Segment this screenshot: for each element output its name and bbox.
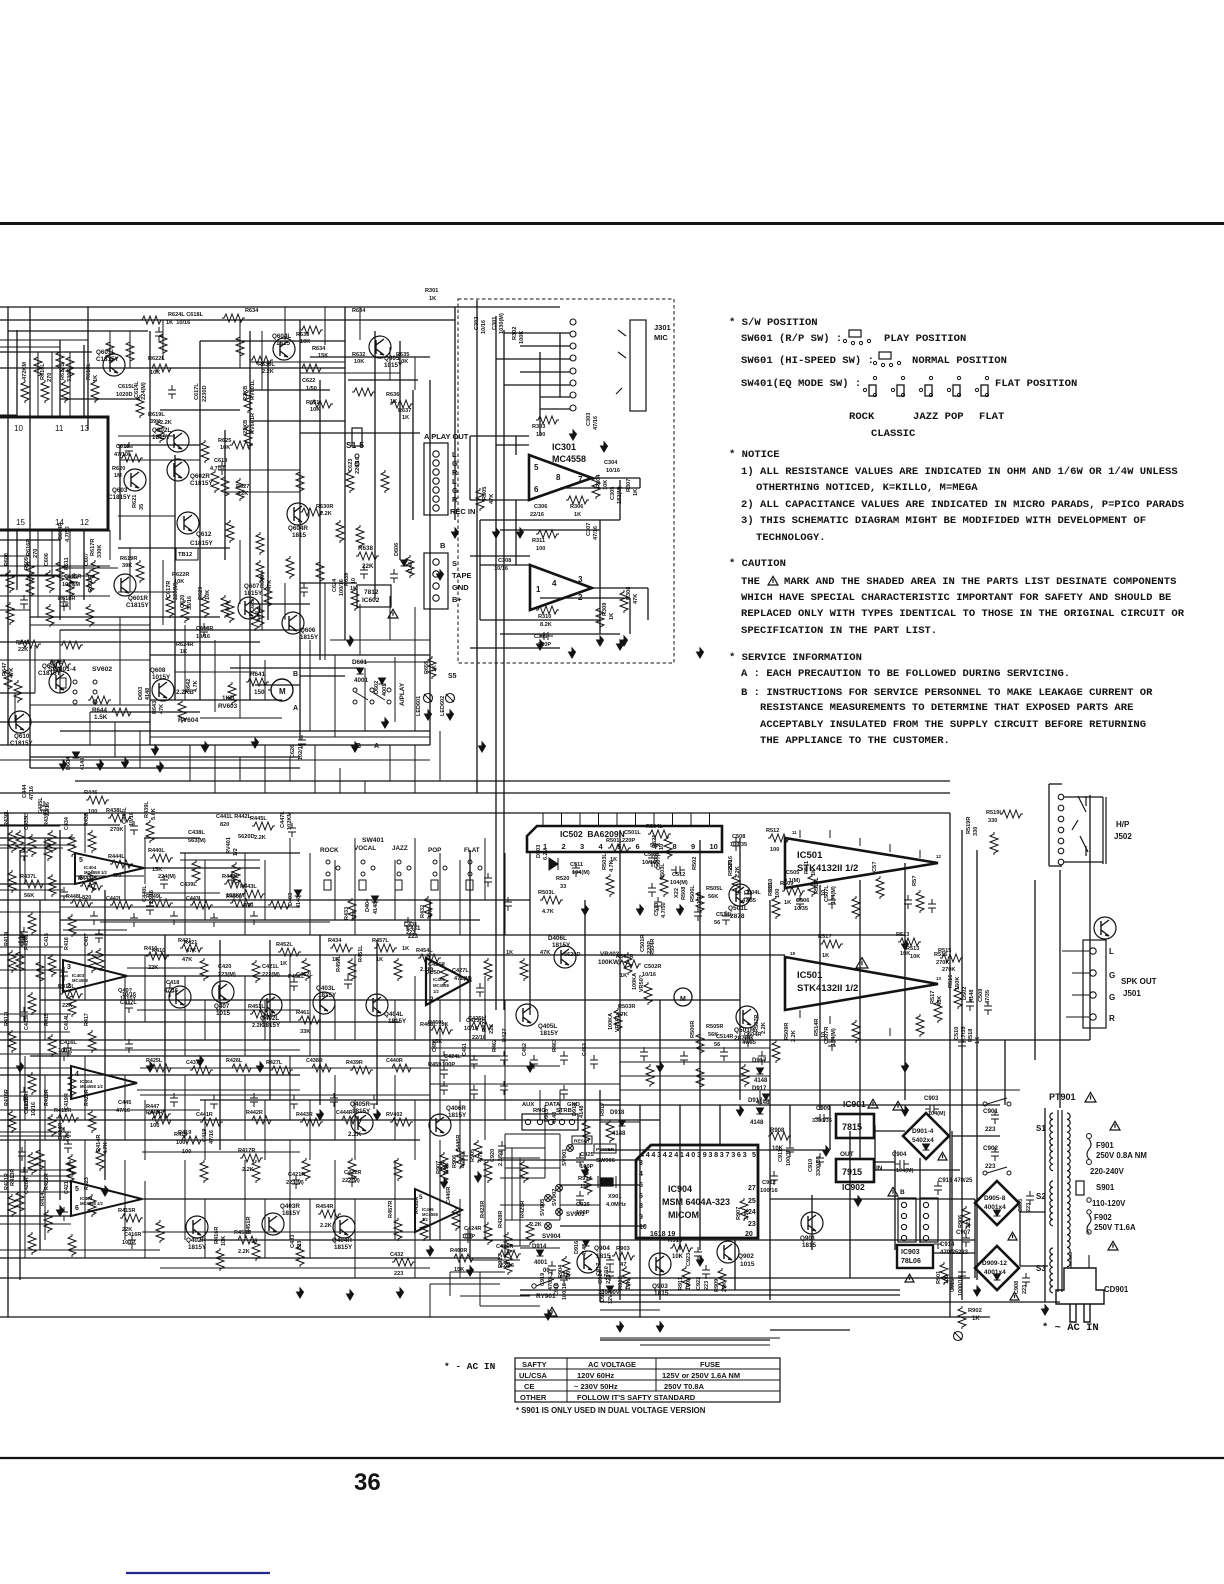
svg-text:6: 6 [639,1193,643,1200]
svg-text:4148: 4148 [754,1078,768,1084]
wire [184,1075,186,1140]
svg-text:REC IN: REC IN [450,507,475,516]
wire [484,1160,486,1240]
ground [582,905,589,915]
wire [144,867,260,869]
wire [0,367,345,369]
wire [0,1180,71,1182]
svg-text:100/35: 100/35 [730,842,747,848]
svg-text:10K: 10K [398,359,408,365]
capacitor C513 sym [654,897,662,911]
svg-text:R907: R907 [736,1207,742,1220]
svg-text:P452L: P452L [288,974,305,980]
svg-text:10/16: 10/16 [129,812,135,826]
wire [414,976,416,1040]
svg-text:Q501L: Q501L [728,905,748,912]
svg-text:* ~ AC IN: * ~ AC IN [1042,1322,1099,1334]
svg-text:56K: 56K [708,894,718,900]
wire [430,1083,620,1085]
svg-text:R414R: R414R [96,1135,102,1152]
ground [257,1062,264,1072]
svg-text:Q604R: Q604R [288,525,308,532]
svg-text:3: 3 [578,575,583,584]
resistor R432 [424,896,432,919]
svg-text:C509: C509 [978,989,984,1002]
resistor mid v22 [852,896,860,919]
svg-text:R636: R636 [386,392,399,398]
resistor R308 [620,590,628,613]
svg-text:R440L: R440L [148,848,165,854]
wire [739,838,741,1100]
capacitor top 0 [125,442,133,456]
resistor mid v35 [252,1160,260,1183]
bridge diode glyph 2 [994,1210,1001,1216]
svg-text:R620: R620 [112,466,125,472]
svg-text:A PLAY OUT: A PLAY OUT [424,432,469,441]
resistor top v17 [181,600,189,623]
wire [137,1009,300,1011]
svg-text:C440R: C440R [386,1058,403,1064]
resistor R501L 1K [608,844,631,852]
transistor Q612 [177,512,199,534]
wire [700,1239,975,1241]
sw symbol HI-SPEED [879,352,891,359]
svg-text:R415L: R415L [58,984,75,990]
wire [30,756,300,758]
svg-text:* SERVICE INFORMATION: * SERVICE INFORMATION [729,652,862,664]
resistor top v19 [221,595,229,618]
resistor top v7 [244,425,252,448]
svg-text:R901: R901 [936,1271,942,1284]
ground [517,528,524,538]
wire [560,487,640,489]
resistor mid v29 [852,1020,860,1043]
svg-text:OTHER: OTHER [520,1393,547,1402]
svg-text:C420: C420 [218,964,231,970]
capacitor mid 18 [732,837,740,851]
svg-text:47/16: 47/16 [29,786,35,800]
svg-text:330: 330 [973,827,979,836]
capacitor d2-4 [20,927,28,941]
svg-text:C438L: C438L [188,830,205,836]
wire [0,1175,71,1177]
resistor mid v4 [232,862,240,885]
capacitor C905 [1026,1191,1034,1205]
svg-text:1030(M): 1030(M) [499,313,505,334]
wire [414,838,416,935]
resistor x8 [126,340,134,363]
wire [520,1294,900,1296]
resistor d3v-0 [646,1064,654,1087]
svg-text:18: 18 [790,951,796,956]
wire [500,1245,530,1247]
wire [600,1309,660,1311]
capacitor top 2 [70,573,78,587]
wire [811,1195,813,1250]
svg-text:MC4558: MC4558 [433,983,449,988]
resistor d2-33 [8,1194,16,1217]
svg-text:4.7K: 4.7K [616,1012,628,1018]
warning by IC901 [868,1099,878,1108]
svg-text:C623: C623 [348,459,354,472]
svg-text:R629: R629 [198,587,204,600]
wire [0,641,260,643]
svg-text:C421: C421 [64,1181,70,1194]
wire [769,900,771,1300]
svg-text:10K: 10K [221,1236,227,1246]
svg-text:223: 223 [1026,1203,1032,1212]
wire [0,847,63,849]
svg-text:R425L: R425L [146,1058,163,1064]
wire [330,639,430,641]
capacitor mid 36 [966,997,974,1011]
svg-text:GND: GND [452,583,469,592]
svg-text:15K: 15K [318,353,328,359]
label R638 [356,552,379,560]
svg-text:R503R: R503R [618,1004,635,1010]
resistor top v12 [26,560,34,583]
capacitor C903 [925,1105,939,1113]
svg-text:MC4558: MC4558 [552,454,586,464]
wire [59,830,61,1200]
svg-text:R617R: R617R [90,539,96,556]
svg-text:THE: THE [741,576,760,588]
svg-text:150K: 150K [955,977,961,990]
wire [162,560,164,625]
svg-text:27K: 27K [722,1282,728,1292]
svg-text:6: 6 [636,842,640,851]
wire [559,1090,561,1114]
resistor d3-4 [310,1064,333,1072]
resistor R504L 56K [648,830,671,838]
svg-text:6: 6 [75,1205,79,1212]
wire [359,604,361,655]
wire [699,1090,701,1105]
wire [0,1139,420,1141]
svg-text:R519L: R519L [986,810,1003,816]
svg-text:R619R: R619R [120,556,137,562]
svg-text:S2: S2 [1036,1192,1046,1201]
wire [264,860,266,920]
svg-text:R452L: R452L [276,942,293,948]
svg-text:D905-8: D905-8 [984,1195,1006,1202]
svg-text:Q404L: Q404L [384,1011,403,1018]
svg-text:5.6K: 5.6K [151,808,157,820]
svg-text:1815Y: 1815Y [388,1018,407,1025]
resistor top v9 [221,475,229,498]
resistor d3-3 [270,1066,293,1074]
wire [127,967,200,969]
svg-text:C414R: C414R [58,1123,64,1140]
capacitor d2-11 [60,1207,68,1221]
wire [504,1056,506,1120]
svg-text:STRB: STRB [556,1108,572,1114]
svg-text:R436L: R436L [4,809,10,826]
wire [144,892,220,894]
capacitor mid 12 [476,983,484,997]
LED602 [446,694,455,703]
resistor R509 1K [782,887,805,895]
wire [118,515,175,517]
resistor mid v8 [200,958,208,981]
svg-text:104(M): 104(M) [896,1168,914,1174]
resistor top h14 [110,708,133,716]
svg-text:CE: CE [524,1382,534,1391]
wire [500,1177,545,1179]
svg-text:2.2K: 2.2K [320,1223,332,1229]
wire [874,1125,876,1170]
svg-text:472(M): 472(M) [454,976,472,982]
capacitor C911 [786,1143,794,1157]
resistor top h12 [390,400,413,408]
wire [164,935,166,1120]
svg-text:10K: 10K [672,1254,684,1260]
svg-text:9: 9 [691,842,695,851]
capacitor C907 [962,1233,970,1247]
wire [449,1272,451,1296]
wire [0,837,75,839]
svg-text:R508: R508 [681,887,687,900]
svg-text:R644: R644 [92,707,108,714]
wire [118,444,200,446]
svg-text:R460R: R460R [450,1248,467,1254]
wire [600,1339,770,1341]
svg-text:* S901 IS ONLY USED IN DUAL VO: * S901 IS ONLY USED IN DUAL VOLTAGE VERS… [516,1406,706,1415]
wire [0,721,150,723]
IC602 7812 regulator box [357,585,391,607]
resistor R907 [740,1198,748,1221]
svg-text:C421R: C421R [288,1172,305,1178]
wire [484,838,486,900]
svg-text:IC902: IC902 [842,1182,865,1192]
resistor mid v26 [934,1000,942,1023]
switch SW401 bank 3 [433,860,437,864]
resistor R303 [536,416,559,424]
wire [0,744,430,746]
svg-text:11: 11 [792,830,797,835]
svg-text:R903: R903 [616,1246,631,1252]
resistor x9 [159,332,167,355]
capacitor mid 7 [125,999,133,1013]
wire [239,540,241,604]
op-amp IC405b [415,1189,462,1232]
svg-text:7: 7 [578,475,583,484]
svg-text:4148: 4148 [552,1112,558,1124]
mic amp dashed box [458,299,674,663]
capacitor top 3 [200,623,208,637]
svg-text:56: 56 [714,920,720,926]
svg-text:100K: 100K [686,1277,692,1290]
svg-text:VOCAL: VOCAL [354,845,376,852]
svg-text:39K: 39K [122,563,132,569]
wire [230,667,360,669]
switch S1-5 sym [352,428,362,446]
svg-text:R511: R511 [804,861,810,874]
svg-text:33K: 33K [300,1029,310,1035]
wire [479,520,481,620]
svg-text:R417: R417 [84,1013,90,1026]
svg-text:IC501: IC501 [797,970,823,981]
svg-text:R438: R438 [84,813,90,826]
mains cord lines [1071,1252,1089,1268]
capacitor mid 31 [18,1147,26,1161]
svg-text:R645: R645 [50,660,63,666]
svg-text:B : INSTRUCTIONS FOR SERVICE P: B : INSTRUCTIONS FOR SERVICE PERSONNEL T… [741,687,1153,699]
svg-text:~ 230V 50Hz: ~ 230V 50Hz [574,1382,618,1391]
svg-text:47K: 47K [633,594,639,604]
svg-text:L: L [1109,947,1114,956]
wire [334,655,336,737]
svg-text:R521: R521 [652,835,658,848]
capacitor d4-0 [90,911,98,925]
svg-text:R617L: R617L [60,363,66,380]
svg-text:Q604L: Q604L [272,333,291,340]
wire [389,596,391,640]
svg-text:C925: C925 [580,1152,595,1158]
svg-text:C416L: C416L [60,1040,77,1046]
wire [89,712,91,745]
resistor d2-17 [68,914,76,937]
wire [469,436,471,500]
svg-text:R642: R642 [186,679,192,692]
transistor Q402R [186,1216,208,1238]
capacitor mid 24 [292,1175,300,1189]
wire [699,840,701,1250]
svg-text:102KM: 102KM [287,812,293,830]
wire [174,455,176,700]
wire [354,838,356,935]
wire [0,969,63,971]
wire bus to mic box [495,316,497,1010]
wire [354,1100,356,1160]
warning below bridge1 [938,1152,947,1160]
svg-text:23: 23 [748,1221,756,1228]
resistor x5 [256,532,264,555]
svg-text:R415: R415 [44,1013,50,1026]
svg-text:15K: 15K [152,867,162,873]
svg-text:R630L: R630L [258,362,275,368]
capacitor mid 32 [694,907,702,921]
ground [545,1310,552,1320]
svg-text:C452: C452 [522,1043,528,1056]
svg-text:R514R: R514R [814,1019,820,1036]
wire [0,1249,160,1251]
resistor top h0 [150,364,173,372]
capacitor C626 [298,735,306,749]
resistor x2 [381,470,389,493]
svg-text:47/16: 47/16 [593,416,599,430]
resistor d3-6 [390,1064,413,1072]
svg-text:C922: C922 [696,1277,702,1290]
svg-text:SV602: SV602 [92,666,112,673]
wire [84,1140,86,1258]
ground [202,742,209,752]
capacitor C917 [606,1255,614,1269]
svg-text:8.2K: 8.2K [540,622,552,628]
svg-text:R655: R655 [424,661,430,674]
wire [894,1150,896,1250]
warning near IC602 [388,609,398,618]
svg-text:R445L: R445L [250,816,267,822]
wire [659,1000,661,1300]
svg-text:S901: S901 [1096,1183,1115,1192]
ground [902,1106,909,1116]
wire [300,372,400,374]
resistor mid v39 [440,1160,448,1183]
svg-text:182(M): 182(M) [617,486,623,504]
ground [537,640,544,650]
wire [129,331,131,368]
wire [504,853,506,935]
svg-text:1: 1 [536,585,541,594]
svg-text:R448L: R448L [66,894,83,900]
J301 MIC jack body [630,320,646,411]
svg-text:C413: C413 [24,1017,30,1030]
resistor d2-39 [316,560,324,583]
wire [324,583,326,660]
switch SV901 [567,1145,574,1152]
capacitor C431 [404,917,412,931]
svg-text:Q601R: Q601R [128,595,148,602]
svg-text:ROCK: ROCK [320,847,339,854]
svg-text:C1815Y: C1815Y [10,740,34,747]
capacitor mid 8 [125,1039,133,1053]
svg-text:SW601 (HI-SPEED SW) :: SW601 (HI-SPEED SW) : [741,355,874,367]
svg-text:S5: S5 [448,673,457,680]
transistor Q406L [554,946,576,968]
svg-text:A/PLAY: A/PLAY [399,682,406,706]
wire [29,307,31,768]
svg-text:R908: R908 [770,1128,785,1134]
svg-text:MIC: MIC [654,333,668,342]
svg-text:C416R: C416R [124,1232,141,1238]
capacitor mid 16 [648,853,656,867]
resistor mid v33 [96,1148,104,1171]
wire [559,333,561,397]
wire [200,1239,700,1241]
wire [24,1140,26,1258]
wire [334,1000,336,1040]
svg-text:270K: 270K [936,960,949,966]
resistor top v3 [91,380,99,403]
wire [184,853,186,935]
resistor mid v15 [520,958,528,981]
wire [0,1131,71,1133]
wire [500,633,620,635]
svg-text:224(M): 224(M) [141,382,147,400]
svg-text:R622R: R622R [172,572,189,578]
resistor x4 [226,520,234,543]
resistor d4-4 [230,899,253,907]
wire [0,911,60,913]
resistor top h9 [140,316,163,324]
wire [540,597,630,599]
warning below 7915 [888,1187,898,1196]
svg-text:10K: 10K [205,590,211,600]
wire [560,1225,645,1227]
capacitor mid 39 [904,895,912,909]
wire [480,519,620,521]
svg-text:R618R: R618R [58,596,75,602]
svg-text:47K: 47K [428,908,434,918]
plug CD901 body [1056,1268,1104,1304]
resistor d4-3 [190,901,213,909]
svg-text:4.7K: 4.7K [103,1142,109,1154]
resistor R446 100 [86,796,109,804]
svg-text:IC501: IC501 [797,850,823,861]
wire [310,356,430,358]
capacitor d2-6 [20,1007,28,1021]
